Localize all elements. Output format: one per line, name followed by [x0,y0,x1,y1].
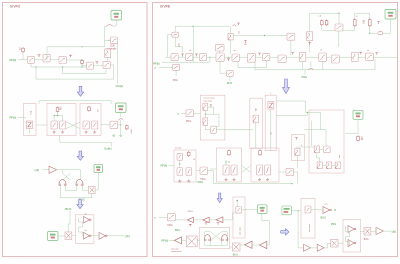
wire Q1 to T4 [175,219,187,221]
cap C2 in B2 [60,121,66,129]
block container M3 [309,110,344,173]
net label Out[k] tier1 [116,84,124,88]
element M3b [324,146,331,153]
wire H4 drop [290,40,292,55]
wire weave P2 a [205,232,222,246]
filter F4 [103,61,110,68]
port gnd P2 a [205,223,208,225]
wire H1 left down [168,35,172,58]
net label u bottom [154,216,156,220]
wire X3 to comparator block [72,235,76,237]
buffer T5 [203,217,209,222]
resistor RR4 [369,19,372,28]
block container N3 [251,148,279,182]
wire F2 to F3 [50,59,59,61]
vertical label M4s [301,144,303,146]
filter G3 [199,54,206,61]
inductor oval H7 [378,32,383,35]
filter Min [186,110,193,117]
block container M2b [265,95,276,151]
element M1a [203,103,208,110]
cap C3 in B3 [83,121,89,129]
resistor RR2 [325,20,328,27]
wire RF to B1 [18,117,27,119]
filter G11 [331,55,339,63]
wire u to Q1 [159,216,168,218]
green info box R-bot2 [282,206,291,215]
wire X3K3 [94,235,99,237]
wire T15 to y [383,230,391,232]
ground N3 a [258,178,261,181]
wire Min to M1 [193,112,200,114]
ground N2 b [232,178,235,181]
port gnd X4 [189,224,192,226]
wire H5 top [310,13,340,32]
wire input bus tier1 [18,59,29,61]
filter F1 [28,56,35,63]
junction tier2 out [120,124,121,125]
wire M3 row2 link [322,164,326,166]
wire inner feet link [65,186,77,191]
wire T12 to X6 [324,243,330,248]
junction at x82 lower [81,66,82,67]
wire M3 cross [304,130,326,146]
value mark G10 [320,49,322,51]
element P3a [305,206,311,213]
svg-text:xxx xx xxxxx: xxx xx xxxxx [204,98,215,100]
ground N0 a [178,180,181,183]
ground B2 left [53,131,56,134]
mixer U16 below bus [227,70,234,76]
blue flow arrow R1 [283,79,290,94]
block container P3 [301,199,315,239]
wire top bus drop left [38,101,40,104]
ground tier2 b [119,134,122,137]
label PRG T4 [188,211,193,213]
wire top bus drop right [110,101,112,104]
wire u to Min [181,112,186,114]
wire crossover X1 [66,122,80,129]
power flag VTB BUS L1 [111,11,122,21]
wire T6 to P1 [223,213,236,220]
buffer T12 [317,244,324,251]
svg-text:xxx xxxx: xxx xxxx [240,226,242,235]
junction RR4 down [369,33,370,34]
label M1 line1 [204,98,215,100]
svg-text:xxxxx xxxxx: xxxxx xxxxx [171,251,182,253]
mixer U2 [111,37,118,44]
mixer H6 [335,24,343,31]
net label u mid [178,112,180,116]
wire underpass C [36,67,113,79]
svg-text:RF[k]: RF[k] [10,116,17,120]
block container P1 [233,197,245,238]
wire F3 out [66,60,86,66]
net label D [334,208,336,212]
blue flow arrow L3 [77,199,83,208]
wire U2 out to Out [117,40,119,83]
wire R1 to bus [22,53,24,60]
comparator T14 [348,240,356,247]
wire N2 inner [225,160,227,165]
ground B2 right [61,131,64,134]
cap CR1 [357,135,360,141]
wire T11 to T12 [311,247,318,249]
port stub G d [291,53,294,55]
svg-text:BUS: BUS [227,82,232,85]
port stub G b [195,54,198,56]
label bottom line2 [171,251,182,253]
junction N2 b [228,161,229,162]
wire mid link lower [277,112,308,115]
buffer T6 [216,217,223,223]
net label y[k] R [392,229,397,233]
wire VTB R-mid down [345,119,358,133]
wire T4 to T5 [193,219,202,221]
value mark G13 [367,49,369,51]
label PRG G15 [173,80,178,82]
svg-text:BUS: BUS [233,253,238,256]
label bottom line1 [171,249,179,251]
integrator G9 [299,53,305,62]
impedance M2b1 [268,102,274,110]
wire H7 out [383,19,391,33]
block container B3 [80,104,101,136]
ground B3 right [93,131,96,134]
wire info box out [291,210,301,212]
label N0 title [175,148,182,150]
port stub R-top b [244,41,247,43]
element M3e [335,162,340,169]
net label Out[k] tier2 [104,146,112,150]
blue flow arrow L2 [77,151,83,160]
label pexample [107,49,118,51]
wire M2b down [270,109,272,151]
vertical label P3 [309,223,311,232]
net label below U16 [227,82,232,85]
wire M1 vert [204,110,206,118]
port stub G e [359,52,362,54]
cap C4 in B3 [92,121,98,129]
net label BUS bottom [233,253,238,256]
port stub P1 [38,55,41,57]
wire weave P2 base [205,245,228,247]
filter G15 below [173,64,180,70]
svg-text:Id VFB: Id VFB [160,5,170,9]
buffer T15 [376,227,383,234]
inductor bump L1 [107,25,113,27]
wire u stub [159,66,173,68]
wire N bus [210,168,217,170]
block container M1 [200,95,225,140]
junction underpass x36 [35,66,36,67]
core T9 [222,235,228,241]
ground N3 b [266,178,269,181]
mixer U3 [87,62,94,69]
wire M3a to M3b [319,148,323,150]
comparator T13 [348,226,356,233]
vertical label H3 [239,30,241,34]
wire VTB L3 down [95,173,98,191]
cap C5 small [126,125,129,131]
wire rail stub G10 [322,62,324,70]
wire H3 up [230,26,232,33]
junction underpass x62 [62,66,63,67]
vertical label in B3 [98,109,100,112]
wire underpass A [31,63,87,67]
label M1 line2 [204,100,213,102]
wire weave P2 b [211,232,228,246]
resistor R1 [22,47,25,53]
wire H1 up [174,26,176,32]
label T10 top [324,204,329,206]
net label RF[k] R-top [153,62,160,66]
wire A1 to F4 [107,58,109,62]
filter G13 [366,53,374,61]
core T8 [204,235,210,241]
cap N2b [231,165,237,175]
wire rail PRG stub [304,70,306,75]
wire rail stub G9 [302,62,304,70]
svg-text:BUS: BUS [321,216,327,220]
power flag VTB BUS L4 [48,232,59,241]
svg-text:Id VFO: Id VFO [10,5,21,9]
label RR pair [318,16,322,18]
net label u R-top [154,66,156,70]
wire crossover N a [242,166,252,173]
vertical label P1 [240,226,242,235]
resistor R4 in B3 [88,106,91,112]
wire crossover N b [242,166,252,173]
element M3c [317,162,322,169]
junction N0 [179,163,180,164]
power flag VTB BUS R-mid [353,110,363,119]
buffer T4 [187,217,193,222]
wire mid link [343,27,355,30]
wire M1b to M1c [205,125,210,130]
blue flow arrow R2 [217,193,222,203]
label PRG Q1 [168,225,173,227]
integrator H3 [228,33,233,40]
wire M3 left drop [311,121,313,147]
junction PRG net [291,183,292,184]
port stub G a [181,54,184,56]
svg-text:BUS: BUS [364,239,369,241]
blue flow arrow L1 [77,86,83,96]
ground tier2 a [112,134,115,137]
port stub G c [258,53,261,55]
wire feedback top [47,47,105,60]
label PRG Min [186,121,191,123]
ground B3 left [85,131,88,134]
power flag VTB BUS L3 [94,164,103,172]
port stub H5 [308,43,311,45]
wire mid link right [276,101,321,130]
element P1a [236,207,242,214]
port stub R-top a [237,23,240,25]
core T1 [59,180,66,186]
wire M3 row1 to row2 [317,153,320,162]
label CR1 [361,137,363,140]
filter G8 [278,55,286,63]
wire bump drop [310,61,312,67]
wire H5 down [309,41,311,53]
wire F5 to node [118,124,121,126]
junction at x82 bus [81,59,82,60]
net label RF[k] tier2 [10,116,17,120]
junction on H3 wire [264,35,265,36]
wire M3 row1 in [296,146,314,148]
resistor R3 in B2 [56,107,59,113]
modulator X6 [331,240,339,248]
wire serpentine B4 [79,218,83,237]
block container M4s [292,135,305,161]
junction N2 a [225,161,226,162]
svg-text:+C+: +C+ [324,204,329,206]
wire T2 foot to X2 [82,186,88,191]
port RR4 [377,22,380,24]
svg-text:PRG: PRG [173,80,178,82]
filter N1 [200,167,208,174]
svg-text:PRG: PRG [188,211,193,213]
wire P4 to X7 [361,230,365,232]
wire tier2 top bus [39,100,111,102]
wire VTB L2 down [120,113,122,118]
comparator K1 [84,216,92,223]
ground N0 b [187,180,190,183]
buffer Tb [260,241,267,248]
junction P1 top [236,200,238,202]
wire H1 bottom jog [175,37,182,57]
wire u to amp [43,169,50,171]
resistor RR1 [321,20,324,27]
svg-text:Out[k]: Out[k] [104,146,112,150]
svg-text:y[k]: y[k] [392,229,397,233]
wire R-top feedback rail [255,59,375,70]
cap N2a [223,165,229,175]
port stub U3 F4 [96,62,99,64]
wire long drop x298 [298,211,303,248]
core container P2 [200,227,230,248]
net label BUS T10 [321,216,327,220]
junction top feedback [81,46,82,47]
vertical label M2b [271,131,273,135]
port in M4s [295,138,298,140]
wire crossover X2 [66,122,80,129]
buffer T11 [304,244,311,251]
junction B2 a [54,115,55,116]
comparator K2 [84,232,92,239]
filter G10 [319,53,327,61]
port stub below bus [227,59,230,61]
element M4s1 [295,149,300,156]
net label y[k] [125,234,130,238]
wire serpentine P4 [346,227,350,246]
resistor RR3 [354,19,357,28]
svg-text:PRG: PRG [175,229,180,232]
filter G5 [232,54,239,61]
page 2 title [160,5,170,9]
wire N3 to N4 [279,171,286,173]
wire Tb up link [262,214,269,246]
label K1 [85,213,87,215]
filter G6 [247,54,255,63]
net label RF[k] mid-low [161,164,168,168]
block container M2a [250,98,262,148]
resistor N3r [259,150,262,157]
wire F4 out [110,65,113,79]
wire F1 to F2 [35,59,44,61]
wire Ta to Tb [252,244,260,246]
wire B2 inner verticals [54,116,63,122]
wire VTB L4 to X3 [58,235,65,237]
filter G2 [186,54,193,61]
vertical label M3 right [339,154,341,158]
integrator G12 [352,53,359,62]
wire N5 link [296,156,298,169]
svg-text:xxxx xxxx: xxxx xxxx [204,100,213,102]
wire Z1 down [29,129,31,134]
filter G1 [171,54,178,61]
vertical label tier2 right [131,128,133,134]
svg-text:PRG: PRG [302,75,308,79]
cap C1 in B2 [51,121,57,129]
junction node at U2 input [108,40,109,41]
block container B2 [47,104,76,136]
resistor N0r [187,151,190,157]
modulator X3 [65,232,72,239]
net label PRG R-top [302,75,308,79]
wire M2b top out [270,93,272,96]
modulator X5 [232,243,240,251]
modulator X4 [186,236,197,247]
wire P1 out [242,209,258,211]
wire amp out [57,170,81,180]
wire node to U2 [105,39,111,41]
filter F3 [59,56,66,63]
net label RF[k] bottom [162,239,169,243]
page 1 sheet border [3,3,148,257]
wire K outputs [91,235,94,237]
filter F2 [43,54,50,62]
wire mid bus into M1 [225,129,250,131]
wire G14 to bus [219,51,221,53]
junction mid links [307,112,308,113]
svg-text:D: D [334,208,336,212]
port gnd P2 b [217,223,220,225]
port stub P2 [69,55,72,57]
junction RF rail to bus [209,57,210,58]
wire from VTB L1 down [113,20,116,26]
power flag VTB BUS L2 [116,103,127,113]
element M1c [211,126,217,133]
svg-text:+3v3: +3v3 [131,128,133,134]
label PRG N1 [201,179,206,181]
vertical label in B1 [31,110,33,115]
filter F5 [110,121,118,128]
block container B1 [24,104,37,136]
vertical label C05 [179,42,181,47]
svg-text:PRG: PRG [198,180,204,184]
wire T5 to T6 [209,219,216,221]
wire M2a down [255,123,257,149]
core T2 [76,180,83,186]
element M3a [314,146,319,153]
svg-text:RF[k]: RF[k] [162,239,169,243]
marks below H3 [245,43,247,44]
modulator G14 above bus [215,44,224,51]
wire G4 drop to U16 [220,62,227,74]
